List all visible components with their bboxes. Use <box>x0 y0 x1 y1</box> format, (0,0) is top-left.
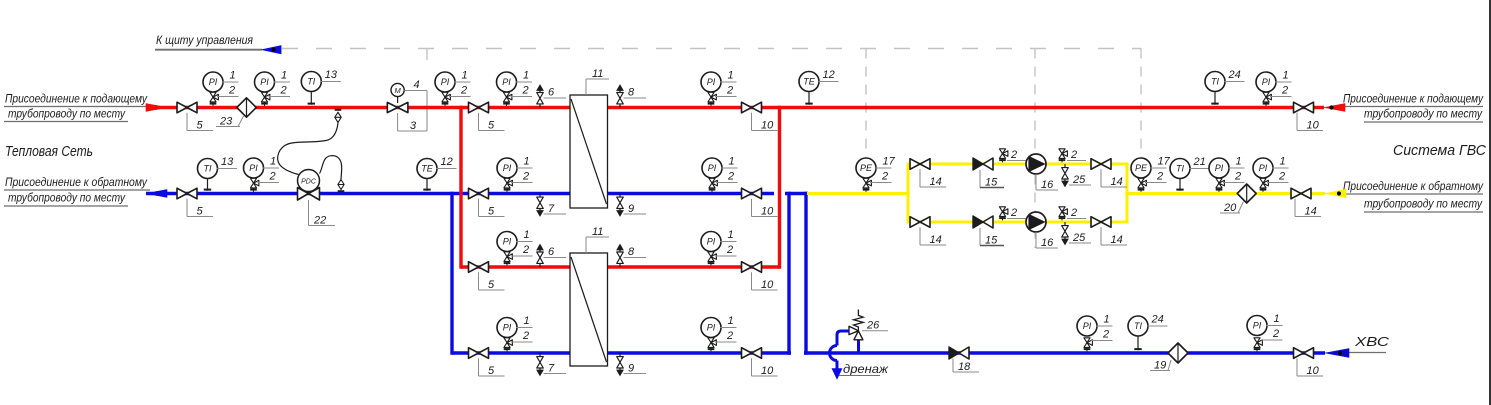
svg-text:2: 2 <box>1234 170 1241 182</box>
svg-text:PI: PI <box>503 323 512 333</box>
svg-text:5: 5 <box>488 279 495 291</box>
thermometer TI pos 24 <box>1205 69 1245 105</box>
svg-text:18: 18 <box>958 361 971 373</box>
svg-text:PI: PI <box>707 237 716 247</box>
svg-text:M: M <box>394 86 401 95</box>
svg-text:1: 1 <box>281 70 287 82</box>
svg-text:2: 2 <box>1281 84 1288 96</box>
svg-text:1: 1 <box>524 315 530 327</box>
wire: cold riser left <box>787 192 790 355</box>
svg-text:PE: PE <box>1135 163 1148 173</box>
svg-text:PI: PI <box>707 323 716 333</box>
svg-text:5: 5 <box>197 205 204 217</box>
thermometer TI pos 13 <box>198 156 238 191</box>
thermometer TI pos 21 <box>1170 156 1210 191</box>
svg-text:5: 5 <box>488 119 495 131</box>
svg-text:1: 1 <box>728 315 734 327</box>
svg-text:PE: PE <box>860 163 873 173</box>
gauge PI pos 1/2 <box>255 70 291 106</box>
svg-text:13: 13 <box>221 156 234 168</box>
sampling cock 2 <box>999 207 1008 221</box>
control drop to motor valve <box>426 49 428 132</box>
impulse line to PDC controller <box>278 123 338 175</box>
label: Teplovaya Set <box>5 144 93 160</box>
gauge PI pos 1/2 <box>701 229 737 265</box>
svg-text:5: 5 <box>488 205 495 217</box>
svg-text:24: 24 <box>1151 314 1164 326</box>
wire: pump branch top <box>907 163 1129 166</box>
svg-text:7: 7 <box>548 362 555 374</box>
drain discharge pipe with crossover bridge <box>830 331 850 379</box>
gauge PI pos 1/2 <box>701 70 737 106</box>
thermometer TI pos 24 <box>1128 314 1168 351</box>
label: connection to supply pipe (right) <box>1343 94 1484 123</box>
valve 10 (XVS inlet) <box>1294 348 1324 377</box>
wire: HX2 cold line <box>452 351 791 354</box>
svg-text:10: 10 <box>761 119 774 131</box>
svg-text:2: 2 <box>1070 207 1077 219</box>
svg-text:5: 5 <box>488 365 495 377</box>
XVS inlet arrow <box>1325 349 1349 358</box>
svg-text:17: 17 <box>1158 156 1171 168</box>
svg-text:TI: TI <box>204 164 212 174</box>
svg-text:14: 14 <box>930 176 942 188</box>
control drop to pumps <box>1034 49 1036 249</box>
heat exchanger 11 (upper) <box>570 68 609 208</box>
svg-text:12: 12 <box>823 69 835 81</box>
svg-text:2: 2 <box>1010 149 1017 161</box>
svg-text:Система ГВС: Система ГВС <box>1393 143 1487 159</box>
check valve 15 <box>973 216 1004 246</box>
wire: pump branch bottom <box>907 221 1129 224</box>
svg-text:14: 14 <box>1111 176 1123 188</box>
wire: HX2 hot line <box>461 265 780 268</box>
label: Sistema GVS <box>1393 143 1487 159</box>
svg-text:PI: PI <box>1262 77 1271 87</box>
valve 5 (HX2 supply) <box>469 262 505 291</box>
gauge PI pos 1/2 <box>701 315 737 351</box>
drain cock 7 <box>537 194 544 217</box>
svg-text:1: 1 <box>728 70 734 82</box>
thermometer TI pos 13 <box>301 69 341 105</box>
check valve 18 <box>949 347 969 359</box>
svg-text:2: 2 <box>726 244 733 256</box>
wire: network return main (blue) <box>146 192 774 195</box>
air vent 6 <box>537 85 544 108</box>
svg-text:4: 4 <box>414 79 420 91</box>
air vent 6 <box>537 244 544 267</box>
pressure sensor PE pos 17/2 <box>856 156 896 192</box>
safety valve 26 with drain <box>849 310 888 353</box>
svg-text:2: 2 <box>522 244 529 256</box>
svg-text:8: 8 <box>628 87 635 99</box>
svg-text:2: 2 <box>1070 149 1077 161</box>
svg-text:2: 2 <box>460 84 467 96</box>
svg-text:трубопроводу по месту: трубопроводу по месту <box>1364 199 1483 211</box>
supply outlet arrow right <box>1324 104 1345 112</box>
svg-text:TE: TE <box>421 164 433 174</box>
svg-text:1: 1 <box>728 229 734 241</box>
svg-text:PI: PI <box>707 77 716 87</box>
GVS return inlet arrow <box>1325 189 1346 197</box>
svg-text:19: 19 <box>1154 359 1166 371</box>
svg-text:2: 2 <box>280 84 287 96</box>
svg-text:Присоединение к обратному: Присоединение к обратному <box>5 177 148 189</box>
svg-text:PDC: PDC <box>301 178 317 185</box>
svg-text:Присоединение к подающему: Присоединение к подающему <box>1343 94 1484 106</box>
svg-text:12: 12 <box>441 156 453 168</box>
svg-text:11: 11 <box>592 226 603 238</box>
gauge PI pos 1/2 <box>1256 70 1292 106</box>
svg-text:1: 1 <box>1104 314 1110 326</box>
wire: cold riser right <box>804 192 807 355</box>
wire: pump group merge <box>1126 164 1129 222</box>
svg-text:трубопроводу по месту: трубопроводу по месту <box>1364 109 1483 121</box>
svg-text:20: 20 <box>1223 202 1237 214</box>
wire: network supply main (red) <box>146 106 1324 109</box>
svg-text:1: 1 <box>1280 156 1286 168</box>
svg-text:24: 24 <box>1228 69 1241 81</box>
sampling cock 2 <box>1059 149 1068 163</box>
wire: GVS header (yellow) <box>807 192 910 195</box>
pump 16 (GVS circulation) <box>1026 154 1058 191</box>
gauge PI pos 1/2 <box>497 315 533 351</box>
svg-text:PI: PI <box>1215 163 1224 173</box>
svg-text:2: 2 <box>726 84 733 96</box>
wire: GVS return line right <box>1125 192 1325 195</box>
return outlet arrow <box>146 190 167 198</box>
svg-text:PI: PI <box>1253 321 1262 331</box>
arrow to control panel <box>262 46 282 54</box>
svg-text:TI: TI <box>1176 164 1184 174</box>
svg-text:PI: PI <box>1083 321 1092 331</box>
valve 10 (HX2 supply) <box>742 262 778 291</box>
thermoelement TE pos 12 <box>417 156 457 191</box>
valve 5 (return outlet) <box>177 188 213 217</box>
svg-text:5: 5 <box>197 119 204 131</box>
svg-text:14: 14 <box>930 234 942 246</box>
svg-text:2: 2 <box>269 170 276 182</box>
check valve 15 <box>973 158 1004 188</box>
svg-text:Присоединение к подающему: Присоединение к подающему <box>5 94 148 106</box>
svg-text:Тепловая Сеть: Тепловая Сеть <box>5 144 93 160</box>
svg-text:23: 23 <box>219 115 233 127</box>
svg-text:2: 2 <box>1102 328 1109 340</box>
svg-text:22: 22 <box>313 214 326 226</box>
svg-text:26: 26 <box>866 320 880 332</box>
label: drenazh <box>839 364 889 376</box>
svg-text:TI: TI <box>307 77 315 87</box>
strainer 23 <box>216 98 256 128</box>
gauge PI pos 1/2 <box>244 156 280 192</box>
control drop to PE sensor right <box>1140 49 1142 158</box>
svg-text:1: 1 <box>462 70 468 82</box>
drain cock 7 <box>537 353 544 376</box>
impulse line to PDC controller <box>320 156 342 180</box>
svg-text:13: 13 <box>325 69 338 81</box>
svg-text:9: 9 <box>628 203 634 215</box>
pressure sensor PE pos 17/2 <box>1131 156 1171 192</box>
svg-text:6: 6 <box>548 87 555 99</box>
gauge PI pos 1/2 <box>497 229 533 265</box>
svg-text:PI: PI <box>708 163 717 173</box>
svg-text:14: 14 <box>1305 205 1317 217</box>
valve 10 (HX2 return) <box>742 348 778 377</box>
thermoelement TE pos 12 <box>799 69 839 105</box>
svg-text:2: 2 <box>1156 170 1163 182</box>
svg-text:15: 15 <box>985 234 998 246</box>
pressure regulator valve 22 with PDC controller <box>298 170 336 227</box>
wire: branch down to HX2 cold side <box>450 192 453 355</box>
valve 14 (pump1 discharge) <box>1091 159 1127 188</box>
svg-text:2: 2 <box>881 170 888 182</box>
label: K shchitu upravleniya <box>155 35 262 50</box>
svg-text:14: 14 <box>1111 234 1123 246</box>
drawing frame right border <box>1489 0 1491 405</box>
gauge PI pos 1/2 <box>702 156 738 192</box>
strainer 20 <box>1220 184 1256 214</box>
svg-text:1: 1 <box>1283 70 1289 82</box>
label: connection to supply pipe (left) <box>4 94 148 122</box>
svg-text:21: 21 <box>1193 156 1206 168</box>
svg-text:К щиту управления: К щиту управления <box>156 35 253 47</box>
gauge PI pos 1/2 <box>1253 156 1289 192</box>
valve 10 (HX1 return) <box>742 188 778 217</box>
valve 14 (GVS return inlet) <box>1291 188 1321 217</box>
supply inlet arrow <box>146 104 167 112</box>
svg-text:25: 25 <box>1072 232 1086 244</box>
heat exchanger 11 (lower) <box>570 226 609 366</box>
svg-text:1: 1 <box>1236 156 1242 168</box>
svg-text:2: 2 <box>1272 328 1279 340</box>
svg-text:16: 16 <box>1041 179 1054 191</box>
svg-text:2: 2 <box>522 330 529 342</box>
drain cock 9 <box>617 353 624 376</box>
svg-text:2: 2 <box>228 84 235 96</box>
label: connection to return pipe (right) <box>1343 181 1484 212</box>
svg-text:PI: PI <box>441 77 450 87</box>
svg-text:25: 25 <box>1072 174 1086 186</box>
drain cock 9 <box>617 194 624 217</box>
control drop to PE sensor left <box>865 49 867 158</box>
valve 10 (supply outlet) <box>1294 102 1324 131</box>
svg-text:8: 8 <box>628 246 635 258</box>
svg-text:TI: TI <box>1211 77 1219 87</box>
svg-text:TI: TI <box>1134 321 1142 331</box>
gauge PI pos 1/2 <box>1077 314 1113 352</box>
sampling cock 2 <box>1059 207 1068 221</box>
svg-text:1: 1 <box>1274 313 1280 325</box>
wire: pump group split <box>907 164 910 222</box>
svg-text:10: 10 <box>1307 119 1320 131</box>
svg-text:1: 1 <box>523 70 529 82</box>
svg-text:10: 10 <box>1307 365 1320 377</box>
valve 10 (HX1 supply) <box>742 102 778 131</box>
label: XVS cold water <box>1349 335 1390 353</box>
svg-text:2: 2 <box>727 170 734 182</box>
svg-text:1: 1 <box>729 156 735 168</box>
control signal bus to panel (dashed) <box>282 48 1141 50</box>
impulse tap on return <box>338 180 345 192</box>
svg-text:дренаж: дренаж <box>843 364 889 376</box>
wire: return/cold header gap segment <box>785 192 808 195</box>
valve 5 (HX1 return) <box>469 188 505 217</box>
svg-text:1: 1 <box>524 229 530 241</box>
valve 14 (pump1 suction) <box>910 159 946 188</box>
svg-text:1: 1 <box>270 156 276 168</box>
svg-text:PI: PI <box>260 77 269 87</box>
wire: XVS cold water line <box>804 351 1325 354</box>
svg-text:10: 10 <box>761 205 774 217</box>
svg-text:2: 2 <box>522 170 529 182</box>
valve 5 (HX1 supply) <box>469 102 505 131</box>
svg-text:PI: PI <box>249 163 258 173</box>
label: connection to return pipe (left) <box>4 177 150 206</box>
svg-text:16: 16 <box>1041 237 1054 249</box>
svg-text:2: 2 <box>1010 207 1017 219</box>
svg-text:10: 10 <box>761 365 774 377</box>
svg-text:PI: PI <box>1259 163 1268 173</box>
valve 14 (pump2 discharge) <box>1091 217 1127 246</box>
svg-text:7: 7 <box>548 203 555 215</box>
svg-text:3: 3 <box>410 120 417 132</box>
strainer 19 <box>1150 343 1188 371</box>
svg-text:2: 2 <box>522 84 529 96</box>
svg-text:15: 15 <box>985 176 998 188</box>
drain cock 25 <box>1062 222 1069 245</box>
svg-text:1: 1 <box>524 156 530 168</box>
svg-text:PI: PI <box>502 77 511 87</box>
svg-text:трубопроводу по месту: трубопроводу по месту <box>8 193 126 205</box>
svg-text:10: 10 <box>761 279 774 291</box>
gauge PI pos 1/2 <box>497 156 533 192</box>
svg-text:PI: PI <box>209 77 218 87</box>
svg-text:6: 6 <box>548 246 555 258</box>
impulse tap on supply main <box>335 110 342 123</box>
svg-text:трубопроводу по месту: трубопроводу по месту <box>8 109 126 121</box>
svg-text:PI: PI <box>503 237 512 247</box>
sampling cock 2 <box>999 149 1008 163</box>
svg-text:Присоединение к обратному: Присоединение к обратному <box>1343 181 1484 193</box>
svg-text:TE: TE <box>803 77 815 87</box>
svg-text:2: 2 <box>726 330 733 342</box>
svg-text:17: 17 <box>883 156 896 168</box>
valve 5 (supply inlet) <box>177 102 213 131</box>
wire: HX2 hot riser <box>778 106 781 269</box>
svg-text:9: 9 <box>628 362 634 374</box>
motor valve 3 with actuator M pos 4 <box>387 79 427 132</box>
pump 16 (GVS circulation standby) <box>1026 212 1058 249</box>
valve 5 (HX2 return) <box>469 348 505 377</box>
gauge PI pos 1/2 <box>203 70 239 106</box>
svg-text:2: 2 <box>1278 170 1285 182</box>
drain cock 25 <box>1062 164 1069 187</box>
gauge PI pos 1/2 <box>1247 313 1283 351</box>
svg-text:1: 1 <box>230 70 236 82</box>
gauge PI pos 1/2 <box>497 70 533 106</box>
svg-text:11: 11 <box>592 68 603 80</box>
air vent 8 <box>617 85 624 108</box>
svg-text:PI: PI <box>503 163 512 173</box>
valve 14 (pump2 suction) <box>910 217 946 246</box>
gauge PI pos 1/2 <box>1209 156 1245 192</box>
svg-text:ХВС: ХВС <box>1354 335 1391 349</box>
air vent 8 <box>617 244 624 267</box>
wire: branch down to HX2 hot side <box>459 106 462 269</box>
gauge PI pos 1/2 <box>435 70 471 106</box>
